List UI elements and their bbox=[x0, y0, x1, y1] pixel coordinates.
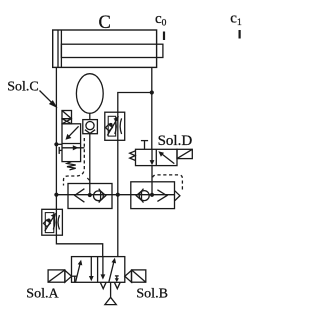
flow control FC2 bbox=[42, 209, 63, 235]
pilot dashed line to V2 exhaust bbox=[153, 175, 183, 190]
node bus-left dot bbox=[54, 193, 58, 197]
svg-text:c1: c1 bbox=[230, 11, 242, 29]
main valve right square down arrow bbox=[101, 257, 106, 280]
exhaust port V right bbox=[114, 282, 120, 288]
label C bbox=[99, 13, 111, 33]
wire branch from node B to flow control FC1 bbox=[118, 93, 152, 114]
main valve right square diagonal arrow bbox=[109, 258, 116, 282]
solenoid A box bbox=[48, 270, 65, 282]
pilot dashed line from Sol.C bbox=[64, 138, 90, 186]
valve Sol.C solenoid bbox=[62, 111, 72, 124]
V2 check diamond bbox=[136, 189, 149, 203]
main valve left square blocked T bbox=[72, 276, 78, 282]
label Sol.B bbox=[136, 287, 168, 302]
valve Sol.D left position arrow bbox=[150, 149, 155, 165]
valve Sol.D body bbox=[136, 149, 178, 165]
label Sol.C bbox=[7, 79, 39, 94]
svg-text:Sol.D: Sol.D bbox=[158, 133, 193, 149]
svg-text:c0: c0 bbox=[155, 11, 167, 29]
node B junction dot bbox=[150, 90, 154, 94]
quick exhaust valve V2 body bbox=[131, 182, 175, 209]
check valve CV1 bbox=[83, 120, 98, 134]
wire Sol.D output down to node bbox=[151, 166, 153, 195]
V2 outlet chevron bbox=[157, 190, 167, 202]
wire left lower bend to bottom valve left port bbox=[56, 235, 102, 257]
wire check valve CV1 down to bus bbox=[89, 134, 91, 195]
valve Sol.C lower position arrow bbox=[62, 145, 84, 150]
V2 exhaust chevron bbox=[175, 191, 180, 201]
main valve left square diagonal arrow bbox=[76, 260, 83, 282]
valve Sol.D solenoid bbox=[177, 149, 192, 158]
svg-text:Sol.C: Sol.C bbox=[7, 79, 39, 94]
label c0 bbox=[155, 11, 167, 29]
label Sol.A bbox=[26, 287, 59, 302]
V1 left seat chevron bbox=[75, 189, 85, 203]
pilot triangle right bbox=[125, 270, 132, 282]
sensor tick c0 bbox=[163, 32, 165, 41]
cylinder C body bbox=[53, 30, 157, 67]
node Sol.C tap dot bbox=[54, 142, 58, 146]
cylinder C piston bbox=[58, 30, 61, 67]
exhaust port V left bbox=[100, 282, 106, 288]
pilot triangle left bbox=[65, 270, 72, 282]
node bus-FC1 dot bbox=[116, 193, 120, 197]
main valve body 5/2 bbox=[72, 257, 125, 283]
node bus-CV1 dot bbox=[88, 193, 92, 197]
reservoir ellipse bbox=[76, 74, 103, 114]
main valve right square T arrow bbox=[115, 276, 119, 282]
V1 check ball bbox=[94, 189, 106, 203]
quick exhaust valve V1 body bbox=[68, 184, 112, 209]
valve Sol.D right position arrow bbox=[158, 151, 174, 163]
leader arrow Sol.C bbox=[40, 91, 58, 109]
svg-text:Sol.B: Sol.B bbox=[136, 287, 168, 302]
label Sol.D bbox=[158, 133, 193, 149]
valve Sol.C input stub bbox=[56, 143, 62, 145]
valve Sol.C upper position arrow bbox=[66, 126, 79, 140]
label c1 bbox=[230, 11, 242, 29]
wire FC1 down through bus to bottom valve right port bbox=[117, 112, 119, 256]
wire ellipse to CV1 bbox=[89, 113, 91, 120]
node bus-SolD dot bbox=[150, 193, 154, 197]
valve Sol.D spring bbox=[130, 151, 136, 161]
valve Sol.C body bbox=[62, 124, 81, 162]
supply line and exhaust triangle bbox=[105, 282, 116, 304]
svg-text:Sol.A: Sol.A bbox=[26, 287, 59, 302]
valve Sol.D blocked port T bbox=[141, 141, 148, 150]
valve Sol.C exhaust T bbox=[59, 147, 62, 154]
solenoid B box bbox=[132, 270, 146, 282]
wire main horizontal bus bbox=[56, 194, 174, 196]
wire right vertical from rod port to Sol.D bbox=[151, 67, 153, 149]
flow control FC1 bbox=[105, 112, 125, 140]
wire left vertical from cylinder cap port bbox=[55, 67, 57, 235]
sensor tick c1 bbox=[239, 30, 241, 39]
svg-text:C: C bbox=[99, 13, 111, 33]
main valve left square down arrow bbox=[89, 257, 94, 282]
valve Sol.C spring bbox=[67, 162, 76, 170]
cylinder C rod bbox=[61, 44, 162, 57]
